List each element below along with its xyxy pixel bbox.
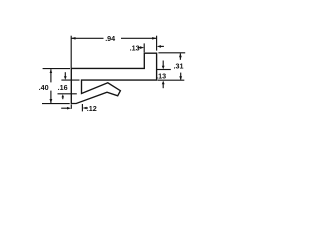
extension line right of .12: [81, 104, 83, 111]
arrow shaft .13 right top: [162, 61, 164, 67]
dimension line .31 upper segment: [179, 53, 181, 59]
extension line top of .16: [61, 79, 79, 81]
extension line top of .13 right: [157, 69, 171, 71]
arrowhead .13 right bottom pointing up: [162, 81, 165, 85]
dimension line .40 upper segment: [50, 69, 52, 82]
dimension line .94 right segment: [121, 37, 157, 39]
extension line bottom of .16: [58, 93, 77, 95]
extension line top of .31: [158, 52, 185, 54]
arrowhead .40 bottom pointing down: [50, 99, 53, 103]
leader tail .13 top left arrow: [138, 47, 141, 49]
svg-text:.40: .40: [39, 83, 49, 92]
arrowhead .16 bottom pointing up: [62, 94, 65, 97]
arrowhead .94 left: [71, 37, 75, 40]
arrowhead .16 top pointing down: [64, 76, 67, 80]
extension line bottom of .40: [42, 103, 70, 105]
arrowhead .13 top right pointing left: [157, 45, 161, 48]
part outline (clip profile): [71, 53, 156, 103]
svg-text:.13: .13: [156, 72, 166, 81]
arrowhead .94 right: [152, 37, 156, 40]
extension line for .13 top (step left edge): [143, 43, 145, 52]
arrowhead .13 top pointing right: [140, 46, 144, 49]
dimension line .31 lower segment: [180, 73, 182, 80]
extension line bottom of .31 / .13 right: [158, 79, 185, 81]
arrow shaft .16 bottom: [62, 97, 64, 100]
arrowhead .13 right top pointing down: [162, 66, 165, 70]
arrowhead .12 left pointing right: [67, 107, 71, 110]
dimension line .94 left segment: [71, 37, 103, 39]
arrowhead .31 top pointing up: [179, 53, 182, 57]
svg-text:.94: .94: [105, 34, 115, 43]
arrow shaft .13 right bottom: [162, 83, 164, 88]
extension line right of dimension .94 / .13 top: [156, 36, 158, 51]
dimension line .40 lower segment: [50, 91, 52, 103]
svg-text:.16: .16: [58, 83, 68, 92]
svg-text:.13: .13: [130, 44, 140, 53]
arrow shaft .16 top: [64, 72, 66, 77]
extension line top of .40: [43, 68, 70, 70]
arrowhead .40 top pointing up: [50, 69, 53, 73]
svg-text:.12: .12: [87, 104, 97, 113]
leader tail .12 left arrow: [61, 107, 67, 109]
svg-text:.31: .31: [174, 62, 184, 71]
leader tail .13 top right arrow: [161, 45, 164, 47]
arrowhead .12 right pointing left: [83, 107, 87, 110]
extension line left of dimension .94: [70, 36, 72, 69]
arrowhead .31 bottom pointing down: [179, 76, 182, 80]
extension line left of .12: [70, 104, 72, 108]
leader tail .12 right arrow: [86, 107, 88, 109]
